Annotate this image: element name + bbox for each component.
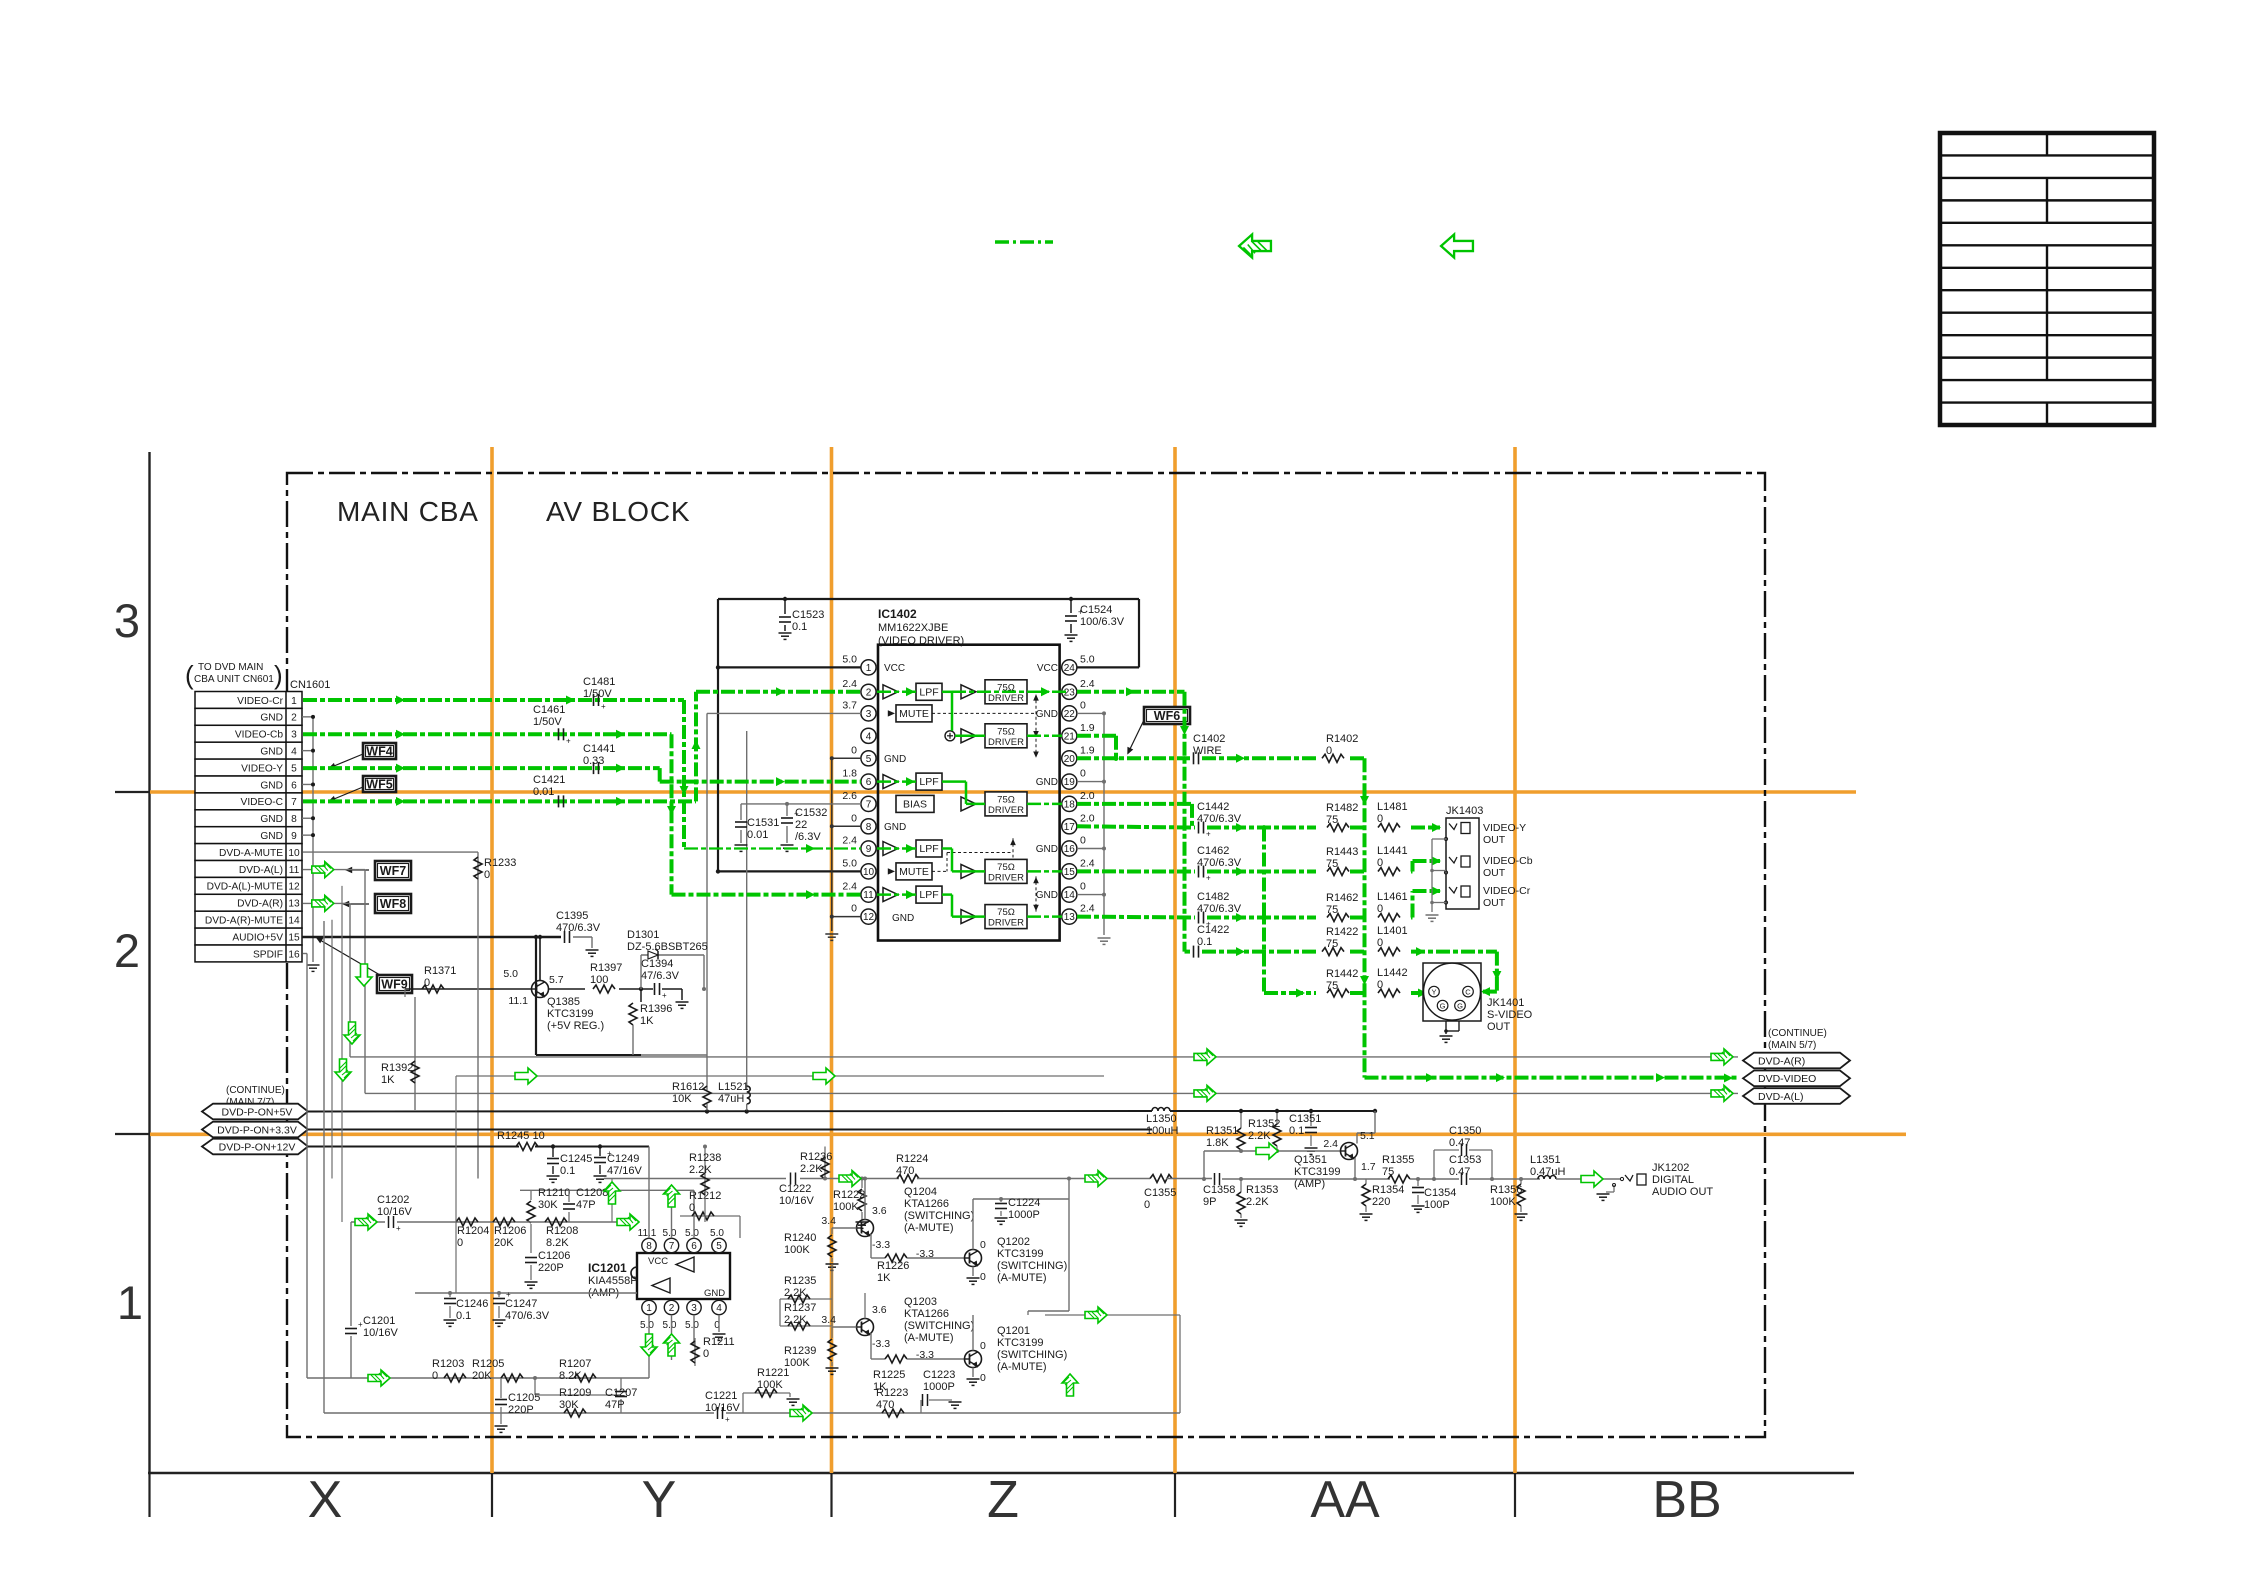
svg-text:0: 0 — [980, 1239, 986, 1251]
svg-text:Y: Y — [642, 1471, 677, 1529]
svg-text:5.0: 5.0 — [663, 1228, 677, 1239]
svg-text:0.47: 0.47 — [1449, 1137, 1470, 1149]
svg-text:C1208: C1208 — [576, 1187, 608, 1199]
svg-text:GND: GND — [704, 1288, 725, 1299]
svg-text:C1394: C1394 — [641, 958, 673, 970]
svg-text:DVD-A-MUTE: DVD-A-MUTE — [219, 848, 283, 859]
svg-text:(: ( — [185, 660, 194, 690]
svg-text:VCC: VCC — [884, 663, 905, 674]
svg-text:S-VIDEO: S-VIDEO — [1487, 1009, 1533, 1021]
svg-text:2: 2 — [114, 924, 140, 977]
svg-text:470: 470 — [896, 1165, 914, 1177]
svg-text:C1247: C1247 — [505, 1298, 537, 1310]
svg-text:Z: Z — [987, 1471, 1019, 1529]
svg-text:2.2K: 2.2K — [784, 1314, 807, 1326]
svg-text:Q1203: Q1203 — [904, 1296, 937, 1308]
svg-text:R1211: R1211 — [703, 1336, 735, 1348]
svg-text:DRIVER: DRIVER — [988, 918, 1024, 929]
svg-text:100K: 100K — [784, 1244, 810, 1256]
svg-text:VCC: VCC — [648, 1256, 668, 1267]
svg-text:100P: 100P — [1424, 1199, 1450, 1211]
svg-text:0: 0 — [1377, 813, 1383, 825]
svg-text:IC1402: IC1402 — [878, 607, 917, 621]
svg-text:220: 220 — [1372, 1196, 1390, 1208]
svg-text:0: 0 — [484, 869, 490, 881]
svg-text:C1246: C1246 — [456, 1298, 488, 1310]
svg-text:VIDEO-Cr: VIDEO-Cr — [237, 696, 283, 707]
svg-text:0: 0 — [703, 1348, 709, 1360]
svg-text:15: 15 — [288, 932, 300, 943]
svg-text:R1402: R1402 — [1326, 733, 1358, 745]
svg-text:R1237: R1237 — [784, 1302, 816, 1314]
svg-text:C1350: C1350 — [1449, 1125, 1481, 1137]
svg-text:GND: GND — [260, 713, 283, 724]
svg-text:5.0: 5.0 — [842, 857, 857, 869]
svg-text:100K: 100K — [833, 1201, 859, 1213]
svg-text:0: 0 — [1080, 699, 1086, 711]
svg-text:R1442: R1442 — [1326, 968, 1358, 980]
svg-text:Y: Y — [1431, 987, 1436, 996]
svg-text:R1397: R1397 — [590, 962, 622, 974]
svg-text:1: 1 — [117, 1276, 143, 1329]
svg-text:L1442: L1442 — [1377, 967, 1408, 979]
svg-text:5.0: 5.0 — [663, 1320, 677, 1331]
svg-text:WF9: WF9 — [381, 978, 407, 992]
svg-text:100K: 100K — [1490, 1196, 1516, 1208]
svg-text:1000P: 1000P — [923, 1381, 955, 1393]
svg-text:2.4: 2.4 — [842, 835, 857, 847]
svg-text:10/16V: 10/16V — [363, 1327, 399, 1339]
svg-text:C1531: C1531 — [747, 817, 779, 829]
svg-text:(A-MUTE): (A-MUTE) — [904, 1222, 954, 1234]
svg-text:R1353: R1353 — [1246, 1184, 1278, 1196]
svg-text:R1206: R1206 — [494, 1225, 526, 1237]
svg-text:C1353: C1353 — [1449, 1154, 1481, 1166]
svg-text:X: X — [308, 1471, 343, 1529]
svg-text:R1352: R1352 — [1248, 1118, 1280, 1130]
svg-text:GND: GND — [260, 831, 283, 842]
svg-text:75Ω: 75Ω — [997, 862, 1015, 873]
svg-text:(A-MUTE): (A-MUTE) — [904, 1332, 954, 1344]
svg-text:(MAIN 5/7): (MAIN 5/7) — [1768, 1040, 1816, 1051]
svg-text:(A-MUTE): (A-MUTE) — [997, 1272, 1047, 1284]
svg-text:C1523: C1523 — [792, 609, 824, 621]
svg-text:R1233: R1233 — [484, 857, 516, 869]
svg-text:R1203: R1203 — [432, 1358, 464, 1370]
svg-text:5.0: 5.0 — [710, 1228, 724, 1239]
svg-text:1.9: 1.9 — [1080, 744, 1095, 756]
svg-text:-3.3: -3.3 — [916, 1349, 934, 1361]
svg-text:75: 75 — [1326, 814, 1338, 826]
svg-text:15: 15 — [1064, 867, 1076, 878]
svg-text:R1612: R1612 — [672, 1081, 704, 1093]
svg-text:GND: GND — [1036, 777, 1058, 788]
svg-text:+: + — [566, 736, 571, 745]
svg-text:75: 75 — [1326, 858, 1338, 870]
svg-text:2.4: 2.4 — [1080, 903, 1095, 915]
svg-text:R1482: R1482 — [1326, 802, 1358, 814]
svg-text:LPF: LPF — [919, 843, 938, 855]
svg-text:C1532: C1532 — [795, 807, 827, 819]
svg-text:75: 75 — [1326, 980, 1338, 992]
svg-text:12: 12 — [863, 912, 875, 923]
svg-text:R1356: R1356 — [1490, 1184, 1522, 1196]
svg-text:100: 100 — [590, 974, 608, 986]
svg-text:R1224: R1224 — [896, 1153, 928, 1165]
svg-text:WF4: WF4 — [366, 745, 392, 759]
svg-text:R1443: R1443 — [1326, 846, 1358, 858]
svg-text:100K: 100K — [784, 1357, 810, 1369]
svg-text:L1521: L1521 — [718, 1081, 749, 1093]
svg-text:C1461: C1461 — [533, 704, 565, 716]
svg-text:C1422: C1422 — [1197, 924, 1229, 936]
svg-text:R1226: R1226 — [877, 1260, 909, 1272]
svg-text:0: 0 — [1326, 745, 1332, 757]
svg-text:470/6.3V: 470/6.3V — [1197, 903, 1242, 915]
svg-text:5.0: 5.0 — [685, 1320, 699, 1331]
svg-text:(CONTINUE): (CONTINUE) — [226, 1085, 285, 1096]
svg-text:30K: 30K — [559, 1399, 579, 1411]
svg-text:1K: 1K — [877, 1272, 891, 1284]
svg-text:+: + — [1206, 874, 1211, 883]
svg-text:20: 20 — [1064, 754, 1076, 765]
svg-text:3.6: 3.6 — [872, 1205, 887, 1217]
svg-text:10: 10 — [288, 848, 300, 859]
svg-text:R1354: R1354 — [1372, 1184, 1404, 1196]
svg-text:C1205: C1205 — [508, 1392, 540, 1404]
svg-text:KTC3199: KTC3199 — [997, 1248, 1043, 1260]
svg-text:0: 0 — [980, 1340, 986, 1352]
svg-text:100/6.3V: 100/6.3V — [1080, 616, 1125, 628]
svg-text:R1208: R1208 — [546, 1225, 578, 1237]
svg-text:11: 11 — [863, 890, 874, 901]
svg-text:KTC3199: KTC3199 — [547, 1008, 593, 1020]
svg-text:DVD-A(R): DVD-A(R) — [237, 899, 283, 910]
svg-text:R1204: R1204 — [457, 1225, 489, 1237]
svg-text:75: 75 — [1382, 1166, 1394, 1178]
svg-text:GND: GND — [884, 822, 906, 833]
svg-text:0: 0 — [1377, 979, 1383, 991]
svg-text:R1392: R1392 — [381, 1062, 413, 1074]
svg-text:GND: GND — [260, 780, 283, 791]
svg-text:0: 0 — [1144, 1199, 1150, 1211]
svg-text:C1201: C1201 — [363, 1315, 395, 1327]
svg-text:DVD-P-ON+3.3V: DVD-P-ON+3.3V — [217, 1124, 297, 1136]
svg-text:(SWITCHING): (SWITCHING) — [904, 1320, 974, 1332]
svg-text:0.33: 0.33 — [583, 755, 604, 767]
svg-text:DVD-A(L): DVD-A(L) — [1758, 1091, 1804, 1103]
svg-text:D1301: D1301 — [627, 929, 659, 941]
svg-text:WF7: WF7 — [380, 864, 406, 878]
svg-text:3.4: 3.4 — [821, 1215, 836, 1227]
svg-text:VIDEO-Cb: VIDEO-Cb — [235, 730, 283, 741]
svg-text:AA: AA — [1310, 1471, 1380, 1529]
svg-text:C1524: C1524 — [1080, 604, 1112, 616]
svg-text:C1462: C1462 — [1197, 845, 1229, 857]
svg-text:7: 7 — [669, 1241, 675, 1252]
svg-text:VIDEO-C: VIDEO-C — [241, 797, 283, 808]
svg-text:3.6: 3.6 — [872, 1304, 887, 1316]
svg-text:Q1201: Q1201 — [997, 1325, 1030, 1337]
svg-text:220P: 220P — [538, 1262, 564, 1274]
svg-text:C1207: C1207 — [605, 1387, 637, 1399]
svg-text:13: 13 — [288, 899, 300, 910]
svg-text:C1355: C1355 — [1144, 1187, 1176, 1199]
svg-text:5.0: 5.0 — [1080, 653, 1095, 665]
svg-text:IC1201: IC1201 — [588, 1261, 627, 1275]
svg-text:75: 75 — [1326, 938, 1338, 950]
svg-text:L1481: L1481 — [1377, 801, 1408, 813]
svg-text:75Ω: 75Ω — [997, 907, 1015, 918]
svg-text:100uH: 100uH — [1146, 1125, 1178, 1137]
svg-text:3: 3 — [691, 1303, 697, 1314]
svg-text:470/6.3V: 470/6.3V — [1197, 857, 1242, 869]
svg-text:KTA1266: KTA1266 — [904, 1308, 949, 1320]
svg-text:7: 7 — [291, 797, 297, 808]
svg-text:9: 9 — [866, 844, 872, 855]
svg-text:C1351: C1351 — [1289, 1113, 1321, 1125]
svg-text:3.7: 3.7 — [842, 699, 857, 711]
svg-text:8.2K: 8.2K — [559, 1370, 582, 1382]
svg-text:KTC3199: KTC3199 — [1294, 1166, 1340, 1178]
svg-text:+: + — [725, 1415, 730, 1424]
svg-text:R1238: R1238 — [689, 1152, 721, 1164]
svg-text:16: 16 — [288, 949, 300, 960]
svg-text:17: 17 — [1064, 822, 1076, 833]
svg-text:47/6.3V: 47/6.3V — [641, 970, 680, 982]
svg-text:MUTE: MUTE — [899, 708, 929, 720]
svg-text:10/16V: 10/16V — [377, 1206, 413, 1218]
svg-text:2.6: 2.6 — [842, 790, 857, 802]
svg-text:R1351: R1351 — [1206, 1125, 1238, 1137]
svg-text:R1462: R1462 — [1326, 892, 1358, 904]
svg-text:2.2K: 2.2K — [1248, 1130, 1271, 1142]
svg-text:6: 6 — [866, 777, 872, 788]
svg-text:47/16V: 47/16V — [607, 1165, 643, 1177]
svg-text:AUDIO OUT: AUDIO OUT — [1652, 1186, 1713, 1198]
svg-text:MM1622XJBE: MM1622XJBE — [878, 622, 948, 634]
svg-text:220P: 220P — [508, 1404, 534, 1416]
svg-text:2: 2 — [669, 1303, 675, 1314]
svg-text:BB: BB — [1652, 1471, 1721, 1529]
svg-text:14: 14 — [288, 915, 300, 926]
svg-text:WF8: WF8 — [380, 897, 406, 911]
svg-text:75Ω: 75Ω — [997, 794, 1015, 805]
svg-text:470/6.3V: 470/6.3V — [556, 922, 601, 934]
svg-text:OUT: OUT — [1483, 834, 1506, 846]
svg-text:0: 0 — [1080, 768, 1086, 780]
svg-text:C1221: C1221 — [705, 1390, 737, 1402]
svg-text:DRIVER: DRIVER — [988, 737, 1024, 748]
svg-text:G: G — [1457, 1001, 1463, 1010]
svg-text:5: 5 — [716, 1241, 722, 1252]
svg-text:2.2K: 2.2K — [784, 1287, 807, 1299]
svg-text:DVD-P-ON+12V: DVD-P-ON+12V — [219, 1141, 296, 1153]
svg-text:L1351: L1351 — [1530, 1154, 1561, 1166]
svg-text:OUT: OUT — [1487, 1021, 1511, 1033]
svg-text:C1358: C1358 — [1203, 1184, 1235, 1196]
svg-text:GND: GND — [1036, 890, 1058, 901]
svg-text:16: 16 — [1064, 844, 1076, 855]
svg-text:6: 6 — [291, 780, 297, 791]
svg-text:47P: 47P — [605, 1399, 625, 1411]
svg-text:SPDIF: SPDIF — [253, 949, 283, 960]
svg-text:-3.3: -3.3 — [872, 1239, 890, 1251]
svg-text:OUT: OUT — [1483, 897, 1506, 909]
svg-text:DIGITAL: DIGITAL — [1652, 1174, 1694, 1186]
svg-text:): ) — [274, 660, 283, 690]
svg-text:DVD-A(R)-MUTE: DVD-A(R)-MUTE — [205, 915, 283, 926]
svg-text:0.1: 0.1 — [560, 1165, 575, 1177]
svg-text:-3.3: -3.3 — [916, 1248, 934, 1260]
svg-text:0: 0 — [432, 1370, 438, 1382]
svg-text:470/6.3V: 470/6.3V — [505, 1310, 550, 1322]
svg-text:LPF: LPF — [919, 776, 938, 788]
svg-text:0: 0 — [1080, 835, 1086, 847]
svg-text:VIDEO-Y: VIDEO-Y — [1483, 822, 1526, 834]
svg-text:Q1385: Q1385 — [547, 996, 580, 1008]
svg-text:OUT: OUT — [1483, 867, 1506, 879]
svg-text:+: + — [601, 702, 606, 711]
svg-text:(A-MUTE): (A-MUTE) — [997, 1361, 1047, 1373]
svg-text:GND: GND — [892, 913, 914, 924]
svg-text:1.8: 1.8 — [842, 768, 857, 780]
svg-text:R1422: R1422 — [1326, 926, 1358, 938]
svg-text:C1245: C1245 — [560, 1153, 592, 1165]
svg-text:R1371: R1371 — [424, 965, 456, 977]
svg-text:4: 4 — [716, 1303, 722, 1314]
svg-text:LPF: LPF — [919, 686, 938, 698]
svg-text:R1396: R1396 — [640, 1003, 672, 1015]
svg-text:2.4: 2.4 — [1323, 1138, 1338, 1150]
svg-text:GND: GND — [884, 754, 906, 765]
svg-text:L1350: L1350 — [1146, 1113, 1177, 1125]
svg-text:0: 0 — [851, 903, 857, 915]
svg-text:C1402: C1402 — [1193, 733, 1225, 745]
svg-text:AV BLOCK: AV BLOCK — [546, 496, 690, 527]
svg-text:3.4: 3.4 — [821, 1314, 836, 1326]
svg-text:C1482: C1482 — [1197, 891, 1229, 903]
svg-text:2.4: 2.4 — [1080, 678, 1095, 690]
svg-text:(+5V REG.): (+5V REG.) — [547, 1020, 604, 1032]
svg-text:0.1: 0.1 — [792, 621, 807, 633]
svg-text:0: 0 — [980, 1271, 986, 1283]
svg-text:VIDEO-Y: VIDEO-Y — [241, 763, 283, 774]
svg-text:20K: 20K — [494, 1237, 514, 1249]
svg-text:13: 13 — [1064, 912, 1076, 923]
svg-text:0.1: 0.1 — [1289, 1125, 1304, 1137]
svg-text:6: 6 — [691, 1241, 697, 1252]
svg-text:DZ-5.6BSBT265: DZ-5.6BSBT265 — [627, 941, 708, 953]
svg-text:TO DVD MAIN: TO DVD MAIN — [198, 662, 263, 673]
svg-text:WIRE: WIRE — [1193, 745, 1222, 757]
svg-text:0: 0 — [1377, 857, 1383, 869]
svg-text:WF5: WF5 — [366, 778, 392, 792]
svg-text:1: 1 — [291, 696, 297, 707]
svg-text:C1395: C1395 — [556, 910, 588, 922]
svg-text:14: 14 — [1064, 890, 1076, 901]
svg-text:DRIVER: DRIVER — [988, 805, 1024, 816]
svg-text:2.0: 2.0 — [1080, 790, 1095, 802]
svg-text:R1223: R1223 — [876, 1387, 908, 1399]
svg-text:1: 1 — [866, 663, 872, 674]
svg-text:12: 12 — [288, 882, 300, 893]
svg-text:BIAS: BIAS — [903, 798, 927, 810]
svg-text:G: G — [1440, 1001, 1446, 1010]
svg-text:(VIDEO DRIVER): (VIDEO DRIVER) — [878, 635, 964, 647]
svg-text:DRIVER: DRIVER — [988, 693, 1024, 704]
svg-text:GND: GND — [260, 814, 283, 825]
svg-text:GND: GND — [1036, 709, 1058, 720]
svg-text:2.2K: 2.2K — [800, 1163, 823, 1175]
svg-text:(SWITCHING): (SWITCHING) — [997, 1260, 1067, 1272]
svg-text:1/50V: 1/50V — [533, 716, 562, 728]
svg-text:DVD-P-ON+5V: DVD-P-ON+5V — [222, 1106, 293, 1118]
svg-text:0.1: 0.1 — [1197, 936, 1212, 948]
svg-text:+: + — [396, 1224, 401, 1233]
svg-text:+: + — [1206, 830, 1211, 839]
svg-text:1K: 1K — [381, 1074, 395, 1086]
svg-text:-3.3: -3.3 — [872, 1338, 890, 1350]
svg-text:9: 9 — [291, 831, 297, 842]
svg-text:20K: 20K — [472, 1370, 492, 1382]
svg-text:0: 0 — [424, 977, 430, 989]
svg-text:5.0: 5.0 — [503, 968, 518, 980]
svg-text:11: 11 — [289, 865, 300, 876]
svg-text:R1225: R1225 — [873, 1369, 905, 1381]
svg-text:0.47: 0.47 — [1449, 1166, 1470, 1178]
svg-text:1K: 1K — [640, 1015, 654, 1027]
svg-text:R1207: R1207 — [559, 1358, 591, 1370]
svg-text:5.1: 5.1 — [1360, 1130, 1375, 1142]
svg-text:3: 3 — [866, 709, 872, 720]
svg-text:R1235: R1235 — [784, 1275, 816, 1287]
svg-text:47uH: 47uH — [718, 1093, 744, 1105]
svg-text:8: 8 — [646, 1241, 652, 1252]
svg-text:DVD-A(L)-MUTE: DVD-A(L)-MUTE — [207, 882, 284, 893]
svg-text:/6.3V: /6.3V — [795, 831, 821, 843]
svg-text:22: 22 — [795, 819, 807, 831]
svg-text:DVD-A(L): DVD-A(L) — [239, 865, 283, 876]
svg-text:11.1: 11.1 — [508, 995, 528, 1007]
svg-text:MUTE: MUTE — [899, 866, 929, 878]
svg-text:R1209: R1209 — [559, 1387, 591, 1399]
svg-text:CBA UNIT CN601: CBA UNIT CN601 — [194, 674, 274, 685]
svg-text:C1224: C1224 — [1008, 1197, 1040, 1209]
svg-text:2: 2 — [291, 713, 297, 724]
svg-text:21: 21 — [1064, 731, 1076, 742]
svg-text:10K: 10K — [672, 1093, 692, 1105]
svg-text:8: 8 — [291, 814, 297, 825]
svg-text:C1206: C1206 — [538, 1250, 570, 1262]
svg-text:0.01: 0.01 — [747, 829, 768, 841]
svg-text:R1222: R1222 — [833, 1189, 865, 1201]
svg-text:C1421: C1421 — [533, 774, 565, 786]
svg-text:R1245 10: R1245 10 — [497, 1130, 545, 1142]
svg-text:7: 7 — [866, 800, 872, 811]
svg-text:0.01: 0.01 — [533, 786, 554, 798]
svg-text:C1249: C1249 — [607, 1153, 639, 1165]
svg-text:KIA4558P: KIA4558P — [588, 1275, 638, 1287]
svg-text:8: 8 — [866, 822, 872, 833]
svg-text:R1355: R1355 — [1382, 1154, 1414, 1166]
svg-text:C1481: C1481 — [583, 676, 615, 688]
svg-text:470/6.3V: 470/6.3V — [1197, 813, 1242, 825]
svg-text:+: + — [662, 991, 667, 1000]
svg-text:JK1202: JK1202 — [1652, 1162, 1689, 1174]
svg-text:10: 10 — [863, 867, 875, 878]
svg-text:2.0: 2.0 — [1080, 812, 1095, 824]
